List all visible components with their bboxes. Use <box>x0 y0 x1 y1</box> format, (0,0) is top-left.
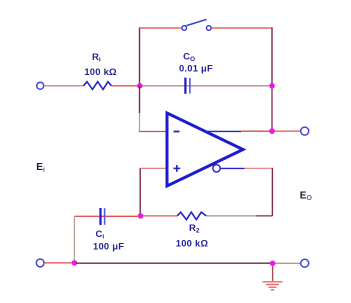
wire C0 to right rail <box>191 85 271 87</box>
node C junction dot <box>269 128 275 134</box>
wire input terminal to Ri <box>44 85 84 87</box>
node F junction dot <box>270 261 276 267</box>
wire node C to output terminal <box>275 130 302 132</box>
wire bubble to right side <box>245 167 273 169</box>
wire to op-amp inverting input <box>139 131 167 133</box>
bubble output lead <box>220 167 244 169</box>
capacitor Ci <box>101 208 105 225</box>
wire top rail to switch <box>139 27 182 29</box>
node E junction dot <box>72 260 78 266</box>
switch S1 <box>182 19 211 30</box>
terminal bottom right <box>301 259 309 267</box>
svg-text:100 kΩ: 100 kΩ <box>84 66 117 77</box>
resistor R2 <box>177 212 206 219</box>
wire to op-amp noninverting input <box>139 167 167 169</box>
op-amp output lead <box>206 130 242 132</box>
ground stub <box>272 266 274 281</box>
svg-text:100 μF: 100 μF <box>93 241 124 252</box>
wire switch to right rail <box>211 27 272 29</box>
svg-text:0.01 μF: 0.01 μF <box>179 63 213 74</box>
bottom rail <box>76 262 271 264</box>
capacitor C0 <box>185 78 190 94</box>
wire Ri to node A <box>112 85 139 87</box>
op-amp bubble on lower edge <box>213 165 220 172</box>
svg-text:100 kΩ: 100 kΩ <box>176 238 209 249</box>
ground symbol <box>263 282 283 290</box>
resistor Ri <box>84 82 112 90</box>
terminal output Eo <box>301 127 309 135</box>
terminal input Ei top <box>37 82 44 89</box>
wire output to node C <box>241 130 270 132</box>
wire left rail up from node A <box>139 27 141 85</box>
wire left down to bottom rail <box>73 216 75 263</box>
wire node F to bottom right terminal <box>275 262 301 264</box>
wire R2 to node D <box>142 215 177 217</box>
terminal input Ei bottom <box>36 259 44 267</box>
wire Ci left segment <box>74 215 99 217</box>
wire node D up to noninverting level <box>139 168 141 216</box>
node B junction dot <box>269 83 275 89</box>
wire right side down to R2 <box>271 168 273 216</box>
wire R2 right segment <box>206 215 272 217</box>
node A junction dot <box>137 83 143 89</box>
node D junction dot <box>138 213 144 219</box>
op-amp U1 <box>167 113 243 186</box>
wire bottom input terminal to node E <box>44 262 73 264</box>
wire node A to C0 <box>140 85 191 87</box>
wire Ci to node D <box>99 215 139 217</box>
wire node A down to inverting level <box>139 86 141 132</box>
wire right rail down to output node <box>271 27 273 131</box>
